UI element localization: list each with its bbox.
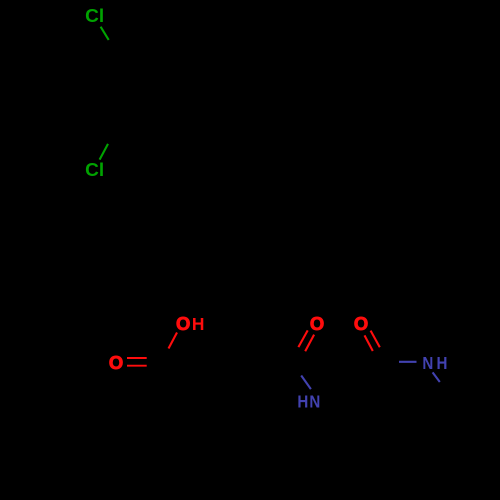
- svg-text:Cl: Cl: [85, 5, 104, 26]
- svg-text:O: O: [354, 313, 368, 334]
- svg-text:H: H: [192, 314, 205, 334]
- svg-text:O: O: [109, 352, 123, 373]
- svg-text:O: O: [176, 313, 190, 334]
- svg-text:H: H: [297, 393, 308, 412]
- svg-text:Cl: Cl: [85, 159, 104, 180]
- svg-text:H: H: [437, 354, 448, 373]
- svg-text:N: N: [422, 354, 433, 373]
- svg-text:N: N: [309, 393, 320, 412]
- svg-text:O: O: [310, 313, 324, 334]
